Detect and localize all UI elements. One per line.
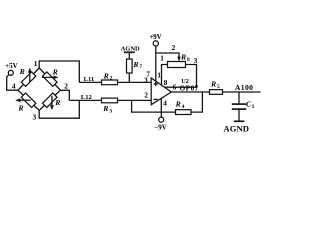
arrow bottom-right (down): [50, 96, 54, 111]
svg-text:R: R: [52, 67, 58, 76]
svg-text:R: R: [17, 103, 23, 112]
label R5: [210, 79, 220, 89]
svg-text:2: 2: [64, 81, 68, 90]
svg-text:7: 7: [139, 64, 142, 70]
label R4: [175, 99, 185, 109]
resistor R7: [127, 59, 133, 73]
svg-text:4: 4: [163, 99, 167, 108]
wire R7 to L11: [128, 73, 130, 82]
svg-text:R: R: [132, 60, 138, 69]
svg-text:+9V: +9V: [149, 33, 162, 41]
feedback wire down from L12 line: [132, 92, 203, 112]
output wire pin 6 to A100: [171, 91, 260, 93]
svg-text:R: R: [175, 99, 181, 108]
resistor R3: [102, 98, 118, 103]
AGND top ground: [121, 45, 140, 52]
bridge arm wire 1-2: [39, 68, 60, 90]
potentiometer R8: [168, 62, 186, 68]
wire pot left to pin 1: [162, 65, 168, 86]
resistor R bottom-left (strain gauge): [21, 93, 35, 107]
resistor R top-left (strain gauge): [21, 72, 35, 86]
svg-text:4: 4: [182, 104, 185, 110]
wiper arrowhead: [177, 57, 181, 62]
wire node3 down right and up to L12: [39, 100, 79, 118]
AGND bottom ground: [223, 121, 249, 133]
wire +5V to node 4: [7, 74, 18, 90]
svg-text:6: 6: [173, 83, 177, 92]
resistor R bottom-right (strain gauge): [43, 93, 57, 107]
resistor R2: [102, 80, 118, 85]
+9V terminal: [149, 33, 162, 46]
svg-text:1: 1: [252, 104, 255, 110]
resistor R top-right (strain gauge): [43, 72, 57, 86]
svg-text:AGND: AGND: [121, 45, 140, 52]
resistor R4: [176, 110, 192, 115]
svg-text:OP07: OP07: [180, 85, 199, 93]
bridge arm wire 4-3: [18, 90, 39, 110]
svg-text:R: R: [103, 71, 109, 80]
C1 junction dot: [238, 91, 240, 93]
wire pin 4 to -9V: [160, 98, 162, 117]
label R3: [102, 104, 112, 114]
wire C1 to AGND: [238, 109, 240, 121]
svg-text:R: R: [210, 79, 216, 88]
wire junction to C1: [238, 92, 240, 103]
wire +9V to pin 7: [155, 46, 157, 81]
feedback junction dot: [202, 91, 204, 93]
label R7: [132, 60, 142, 70]
wire L11 line: [79, 81, 151, 83]
svg-text:1: 1: [157, 72, 161, 80]
svg-text:1: 1: [34, 59, 38, 68]
wire L12 line: [69, 99, 151, 101]
svg-text:7: 7: [146, 71, 150, 79]
svg-text:L12: L12: [81, 94, 93, 101]
arrow top-left (up): [28, 68, 32, 82]
svg-text:A100: A100: [235, 83, 253, 92]
wire node1 up-over-down to L11: [39, 61, 79, 82]
bridge arm wire 3-2: [39, 90, 60, 110]
svg-text:8: 8: [164, 78, 168, 87]
svg-text:2: 2: [110, 76, 113, 82]
label R8: [180, 53, 190, 63]
svg-text:R: R: [54, 98, 60, 107]
svg-text:4: 4: [12, 82, 16, 91]
svg-text:L11: L11: [84, 76, 95, 83]
arrow top-right (right): [42, 76, 59, 80]
svg-text:5: 5: [217, 84, 220, 90]
svg-text:2: 2: [144, 91, 148, 100]
svg-text:R: R: [102, 104, 108, 113]
svg-text:−9V: −9V: [154, 123, 167, 131]
svg-text:8: 8: [187, 57, 190, 63]
arrow bottom-left (left): [15, 98, 30, 102]
+5V terminal: [5, 62, 18, 75]
bridge arm wire 4-1: [18, 68, 39, 90]
capacitor C1: [232, 104, 246, 109]
svg-text:3: 3: [33, 112, 37, 121]
wire pot right to pin 8: [165, 65, 197, 88]
wire node2 to L12: [60, 90, 69, 100]
svg-text:AGND: AGND: [223, 123, 249, 133]
svg-text:+5V: +5V: [5, 62, 18, 70]
label C1: [246, 99, 255, 110]
wire AGND to R7: [128, 52, 130, 59]
plus sign: [154, 82, 158, 86]
resistor R5: [210, 90, 223, 95]
minus sign: [154, 98, 158, 100]
svg-text:2: 2: [172, 43, 176, 52]
svg-text:1: 1: [160, 55, 164, 63]
svg-text:R: R: [19, 67, 25, 76]
svg-text:R: R: [180, 53, 186, 62]
-9V terminal: [154, 117, 167, 131]
svg-text:3: 3: [194, 57, 198, 65]
label R2: [103, 71, 113, 81]
svg-text:3: 3: [109, 109, 112, 115]
op-amp U2 OP07 triangle body: [151, 78, 171, 105]
wiper wire to R8: [156, 53, 179, 59]
